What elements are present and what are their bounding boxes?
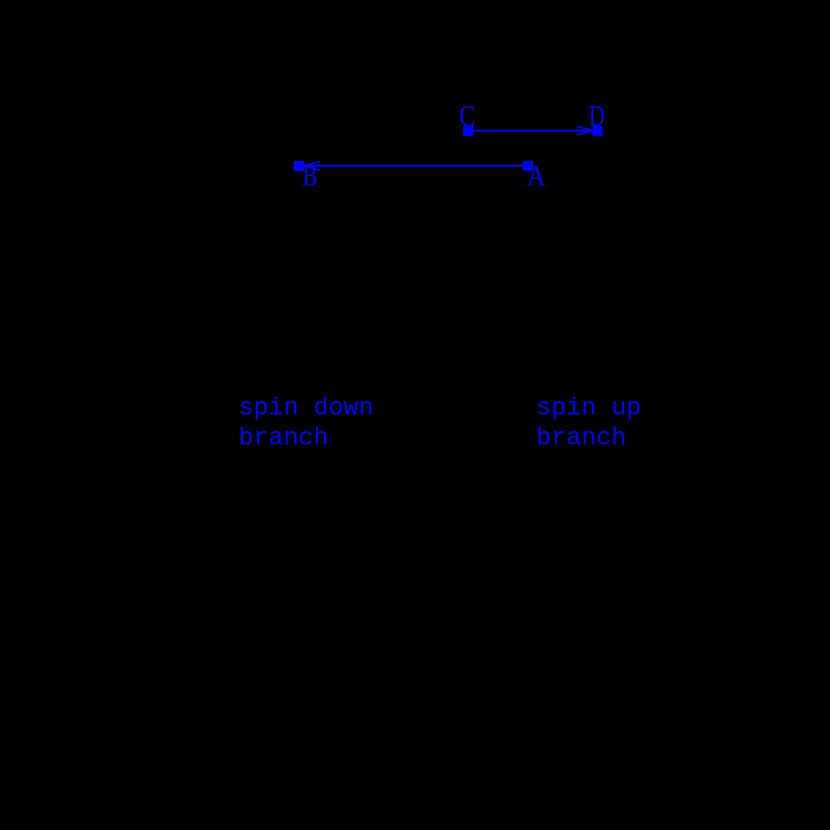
svg-text:B: B [303, 161, 318, 193]
svg-text:branch: branch [536, 424, 626, 453]
wire: spin down path line A to B [304, 165, 528, 167]
arrowhead at B [304, 162, 320, 171]
svg-text:spin up: spin up [536, 394, 641, 423]
svg-text:C: C [459, 101, 476, 133]
node A marker [523, 161, 533, 171]
svg-text:branch: branch [239, 424, 329, 453]
node D marker [593, 126, 603, 136]
svg-text:spin down: spin down [239, 394, 374, 423]
arrowhead at D [577, 126, 593, 135]
node C marker [463, 126, 473, 136]
wire: spin up path line C to D [468, 130, 593, 132]
node B marker [294, 161, 304, 171]
svg-text:A: A [527, 161, 546, 193]
svg-text:D: D [589, 101, 605, 133]
